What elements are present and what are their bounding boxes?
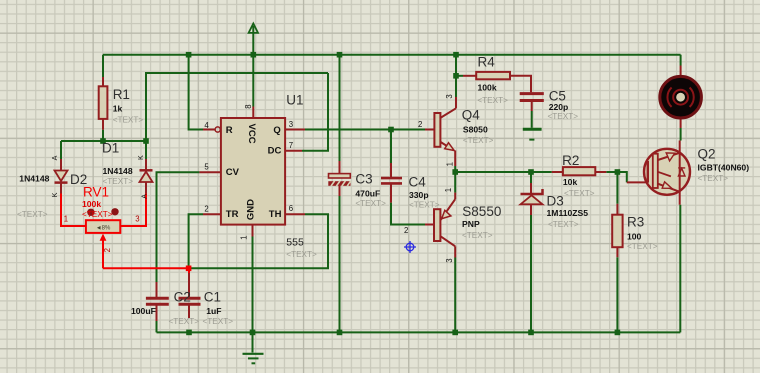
wire R1 bottom to D-net [102,130,104,142]
svg-text:PNP: PNP [462,219,480,229]
svg-text:Q4: Q4 [462,108,481,123]
pin stub D1 anode [145,182,147,194]
svg-text:8: 8 [244,104,253,108]
junction dot (red, wiper node) [186,266,192,272]
IGBT Q2 collector arrow [666,153,675,161]
pin stub D2 cathode [60,184,62,194]
svg-text:Q: Q [273,125,280,136]
wire top rail to C3 [339,55,341,161]
svg-text:IGBT(40N60): IGBT(40N60) [698,163,750,173]
svg-text:<TEXT>: <TEXT> [409,201,440,210]
svg-text:3: 3 [289,120,293,129]
ground symbol below U1 [243,354,264,364]
wire VCC pin 8 riser [252,55,254,107]
wire (highlighted) D1 anode to RV1 pin3 [120,194,146,227]
svg-text:4: 4 [204,121,209,130]
svg-text:100k: 100k [478,83,497,93]
transistor S8550 emitter arrow (points to base) [442,210,451,218]
wire R2 right to IGBT gate corner [606,172,627,182]
IGBT Q2 emitter arrow [662,182,672,189]
wire C3 bottom to ground rail [339,196,341,332]
svg-text:<TEXT>: <TEXT> [463,136,494,145]
wire Q4 emitter to node [454,166,456,172]
pin stub S8550 emitter [454,193,456,200]
pin stub motor bottom [680,119,682,128]
svg-text:S8550: S8550 [462,204,501,219]
svg-text:5: 5 [204,163,209,172]
svg-text:TR: TR [226,209,239,220]
wire C4 bottom to S8550 base [391,203,425,225]
diode D1 cathode bar [140,169,153,172]
pin stub C2 bottom [156,305,158,322]
wire IGBT emitter to rail [679,205,681,333]
pin stub IGBT collector top [679,141,681,155]
svg-text:<TEXT>: <TEXT> [286,250,317,259]
wire C4 top branch [390,130,392,164]
pin stub Q4 base [425,129,434,131]
power symbol VCC arrow [249,24,258,33]
svg-text:100uF: 100uF [131,306,156,316]
svg-text:2: 2 [103,248,112,252]
svg-text:330p: 330p [409,190,429,200]
svg-text:1: 1 [445,162,454,166]
svg-text:C4: C4 [409,174,427,189]
wire S8550 emitter to node [454,172,456,193]
svg-text:220p: 220p [549,102,569,112]
wire top rail to R1 top [102,55,104,77]
pin stub U1 pin2 TR [203,213,221,215]
svg-text:<TEXT>: <TEXT> [17,210,48,219]
diode D1 triangle [140,172,153,182]
pin stub C4 top [390,163,392,177]
resistor R3 body [612,215,622,248]
svg-text:100: 100 [627,232,642,242]
svg-text:555: 555 [286,236,304,248]
transistor Q4 base bar [434,113,440,147]
svg-text:R2: R2 [562,153,579,168]
transistor S8550 base bar [434,209,440,241]
pin bubble U1 R [215,127,220,132]
svg-text:1N4148: 1N4148 [103,166,133,176]
pin stub R1 top [102,77,104,86]
IGBT Q2 body diode [678,168,685,176]
pin stub U1 pin3 Q [285,129,305,131]
svg-text:TH: TH [269,209,282,220]
svg-text:1N4148: 1N4148 [19,173,49,183]
svg-text:C1: C1 [204,289,221,304]
pin stub C1 bottom [188,305,190,319]
ground symbol below C5 [523,129,542,139]
pin stub D1 cathode [145,159,147,170]
wire power arrow to top rail [252,26,254,55]
svg-text:A: A [139,194,148,199]
pin stub R1 bottom [102,119,104,130]
pin stub R3 bottom [616,247,618,257]
potentiometer RV1 body (highlighted) [86,220,120,233]
transistor S8550 collector line [440,236,455,246]
IGBT Q2 channel bar [653,154,658,188]
motor right brush arc [690,88,694,107]
svg-text:1: 1 [444,188,453,192]
svg-text:D1: D1 [102,140,119,155]
pin stub D3 anode [530,205,532,216]
svg-text:<TEXT>: <TEXT> [203,317,234,326]
zener D3 cathode bar [521,189,543,194]
IGBT Q2 body circle [644,149,690,195]
svg-text:<TEXT>: <TEXT> [82,210,113,219]
IGBT Q2 emitter diagonal [658,184,680,192]
svg-text:2: 2 [418,120,422,129]
pin stub U1 pin6 TH [285,213,305,215]
svg-text:U1: U1 [286,93,303,108]
pin stub IGBT emitter bottom [679,192,681,205]
wire D1 cathode up and across to x328 [146,73,328,159]
wire D3 bottom to ground rail [530,215,532,332]
pin stub motor top [680,66,682,77]
svg-text:R: R [226,125,233,136]
svg-text:<TEXT>: <TEXT> [548,220,579,229]
svg-text:7: 7 [289,141,293,150]
potentiometer RV1 marker dots [87,209,94,216]
pin stub U1 pin4 R with bubble [203,129,215,131]
svg-text:<TEXT>: <TEXT> [698,174,729,183]
svg-text:K: K [136,155,145,160]
svg-text:C3: C3 [355,172,372,187]
resistor R4 body [476,72,510,79]
svg-text:100k: 100k [82,199,101,209]
wire (highlighted) wiper to TR/TH junction [103,267,189,269]
wire D3 top tap [530,172,532,183]
svg-text:C2: C2 [174,289,191,304]
wire x328 down to DC pin 7 [302,73,328,151]
wire C5 bottom to ground symbol [531,111,533,128]
svg-text:3: 3 [445,258,454,262]
U1 555 chip body [221,118,285,225]
wire D-net horizontal [61,140,146,142]
capacitor C4 plates [381,178,402,183]
svg-text:CV: CV [226,167,240,178]
wire TH pin 6 loop [191,214,328,268]
wire Q output pin3 to Q4 base [305,129,425,131]
wire (highlighted) RV1 wiper down [102,237,104,269]
junction dots (green) [100,52,620,335]
transistor Q4 collector line [440,108,456,118]
svg-text:S8050: S8050 [463,124,488,134]
svg-text:GND: GND [246,199,257,220]
capacitor C1 plates [179,298,201,304]
pin stub Q4 emitter [454,150,456,166]
svg-text:<TEXT>: <TEXT> [627,242,658,251]
capacitor C2 plates [146,298,169,304]
pin stub C5 bottom [531,102,533,111]
wire TR pin 2 down [189,214,203,268]
diode D2 triangle [55,171,68,182]
svg-text:470uF: 470uF [355,188,380,198]
pin stub S8550 base [425,224,434,226]
motor inner ring [673,90,688,105]
resistor R1 body [99,86,108,119]
svg-text:3: 3 [445,94,454,98]
svg-text:R4: R4 [478,54,496,69]
wire emitter node to R2 [455,171,552,173]
IGBT Q2 gate bar [647,161,649,183]
pin stub U1 pin7 DC [285,150,302,152]
svg-text:DC: DC [268,146,282,157]
motor center hole [676,93,685,102]
pin stub C3 bottom [339,186,341,196]
pin stub R4 left [463,75,476,77]
pin stub U1 pin8 VCC [252,107,254,119]
wire S8550 collector to rail [454,258,456,333]
pin stub C2 top [156,282,158,297]
wire top rail corner to motor [680,55,682,66]
pin stub S8550 collector [454,246,456,257]
svg-text:1M110ZS5: 1M110ZS5 [547,208,589,218]
svg-text:1: 1 [64,215,68,224]
svg-text:<TEXT>: <TEXT> [477,96,508,105]
motor/buzzer outer circle [660,76,702,118]
wire R3 bottom to ground rail [616,257,618,332]
pin stub R2 right [595,171,606,173]
origin marker (blue crosshair) [404,241,416,253]
svg-text:<TEXT>: <TEXT> [169,317,200,326]
wire (highlighted) junction down to C1 [188,268,190,273]
svg-text:Q2: Q2 [698,146,716,161]
motor left brush arc [667,88,671,107]
resistor R2 body [563,167,595,175]
svg-text:1uF: 1uF [206,306,221,316]
svg-text:3: 3 [135,215,139,224]
svg-text:<TEXT>: <TEXT> [462,231,493,240]
wire CV pin 5 to C2 [157,172,200,282]
wire U1 GND pin 1 to ground [252,237,254,353]
wire ground rail bottom [157,331,681,333]
svg-text:1: 1 [240,236,249,240]
transistor Q4 emitter line [440,142,453,150]
svg-text:10k: 10k [563,177,578,187]
svg-text:<TEXT>: <TEXT> [355,199,386,208]
pin stub C1 top [188,273,190,297]
svg-text:<TEXT>: <TEXT> [113,115,144,124]
pin stub R3 top [616,204,618,215]
wire motor bottom to IGBT collector [680,128,682,141]
transistor Q4 emitter arrow [445,143,455,151]
pin stub Q4 collector [455,97,457,108]
pin stub U1 pin1 GND [252,225,254,237]
IGBT Q2 internal vertical [679,153,681,192]
wire C2 bottom corner to rail [156,321,158,332]
svg-text:<TEXT>: <TEXT> [548,112,579,121]
pin stub IGBT gate [627,181,647,183]
capacitor C3 bottom plate (hatched) [328,181,350,186]
diode D2 cathode bar [55,181,68,184]
svg-text:A: A [50,155,59,160]
pin stub U1 pin5 CV [199,171,221,173]
svg-text:R3: R3 [627,215,644,230]
pin stub R2 left [552,171,563,173]
IGBT Q2 collector diagonal [658,153,680,160]
svg-text:◄8%: ◄8% [96,226,111,232]
potentiometer RV1 wiper arrow [100,234,107,241]
svg-text:D3: D3 [547,193,564,208]
svg-text:<TEXT>: <TEXT> [564,189,595,198]
svg-text:R1: R1 [113,87,130,102]
capacitor C3 top plate (polarised +) [329,174,351,178]
svg-text:2: 2 [204,205,208,214]
wire (highlighted) D2 cathode to RV1 pin1 [61,194,86,227]
pin stub C4 bottom [390,184,392,202]
pin stub D2 anode [60,159,62,171]
svg-text:1k: 1k [113,103,123,113]
zener D3 triangle [521,195,543,204]
svg-text:2: 2 [404,226,408,235]
capacitor C5 plates [520,94,544,101]
wire top rail to Q4 collector [455,55,457,97]
svg-text:K: K [50,192,59,197]
wire D-net to D2 anode [60,141,62,159]
pin stub C3 top [339,161,341,174]
transistor S8550 emitter line [440,199,455,220]
svg-text:6: 6 [289,204,293,213]
wire top rail to R pin 4 [189,55,203,130]
wire R4 left tap [456,75,463,77]
wire VCC top rail [103,54,681,56]
svg-text:VCC: VCC [246,124,257,144]
pin stub D3 cathode [530,183,532,194]
svg-text:RV1: RV1 [83,184,109,199]
pin stub R4 right to C5 [510,76,531,92]
wire R3 top [616,172,618,204]
